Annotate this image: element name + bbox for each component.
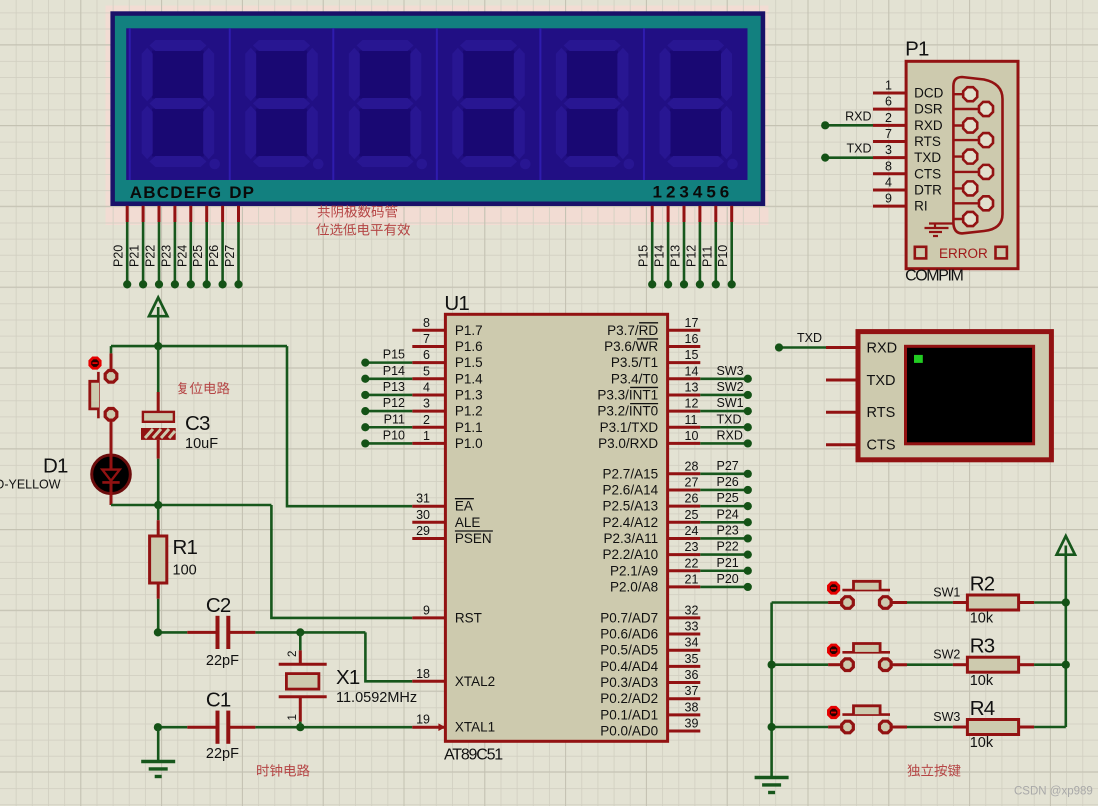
svg-text:1: 1 bbox=[423, 429, 430, 443]
svg-text:4: 4 bbox=[423, 380, 430, 394]
svg-text:P15: P15 bbox=[637, 245, 651, 267]
svg-text:P23: P23 bbox=[159, 245, 173, 267]
svg-text:P25: P25 bbox=[717, 491, 739, 505]
svg-text:XTAL2: XTAL2 bbox=[455, 674, 495, 689]
svg-text:ERROR: ERROR bbox=[939, 246, 988, 261]
svg-text:1: 1 bbox=[287, 714, 299, 720]
svg-text:P3.4/T0: P3.4/T0 bbox=[611, 371, 658, 386]
svg-text:P22: P22 bbox=[144, 245, 158, 267]
svg-text:TXD: TXD bbox=[914, 150, 941, 165]
svg-text:P14: P14 bbox=[383, 364, 405, 378]
svg-text:10k: 10k bbox=[970, 735, 994, 751]
svg-text:39: 39 bbox=[685, 717, 699, 731]
svg-text:21: 21 bbox=[685, 572, 699, 586]
svg-text:TXD: TXD bbox=[717, 412, 742, 426]
svg-text:28: 28 bbox=[685, 459, 699, 473]
svg-text:3: 3 bbox=[885, 143, 892, 157]
svg-text:U1: U1 bbox=[444, 292, 469, 315]
svg-text:13: 13 bbox=[685, 380, 699, 394]
svg-text:10k: 10k bbox=[970, 611, 994, 627]
svg-text:P1.4: P1.4 bbox=[455, 371, 483, 386]
svg-text:RXD: RXD bbox=[717, 428, 743, 442]
svg-text:RI: RI bbox=[914, 199, 928, 214]
svg-text:P22: P22 bbox=[717, 540, 739, 554]
svg-text:35: 35 bbox=[685, 652, 699, 666]
svg-text:P1.0: P1.0 bbox=[455, 436, 483, 451]
svg-text:25: 25 bbox=[685, 508, 699, 522]
svg-text:2: 2 bbox=[885, 111, 892, 125]
svg-text:P3.6/WR: P3.6/WR bbox=[604, 339, 658, 354]
svg-text:P2.4/A12: P2.4/A12 bbox=[603, 515, 659, 530]
svg-text:P2.5/A13: P2.5/A13 bbox=[603, 499, 659, 514]
svg-text:XTAL1: XTAL1 bbox=[455, 720, 495, 735]
svg-text:P23: P23 bbox=[717, 523, 739, 537]
svg-text:P0.1/AD1: P0.1/AD1 bbox=[600, 707, 658, 722]
svg-text:38: 38 bbox=[685, 700, 699, 714]
svg-text:23: 23 bbox=[685, 540, 699, 554]
svg-text:C2: C2 bbox=[206, 594, 231, 617]
svg-text:DSR: DSR bbox=[914, 102, 943, 117]
svg-text:P0.7/AD7: P0.7/AD7 bbox=[600, 610, 658, 625]
svg-text:19: 19 bbox=[416, 713, 430, 727]
svg-text:R4: R4 bbox=[970, 697, 995, 720]
svg-text:27: 27 bbox=[685, 475, 699, 489]
svg-text:P2.0/A8: P2.0/A8 bbox=[610, 579, 658, 594]
svg-text:5: 5 bbox=[423, 364, 430, 378]
svg-text:P3.3/INT1: P3.3/INT1 bbox=[597, 387, 658, 402]
svg-text:4: 4 bbox=[885, 175, 892, 189]
svg-text:SW2: SW2 bbox=[717, 380, 744, 394]
svg-text:100: 100 bbox=[173, 563, 197, 579]
svg-text:P26: P26 bbox=[717, 475, 739, 489]
svg-text:PSEN: PSEN bbox=[455, 531, 492, 546]
svg-text:P3.0/RXD: P3.0/RXD bbox=[598, 436, 658, 451]
svg-text:CSDN @xp989: CSDN @xp989 bbox=[1014, 786, 1093, 798]
svg-text:P1: P1 bbox=[905, 37, 929, 60]
svg-text:R1: R1 bbox=[173, 536, 198, 559]
svg-text:9: 9 bbox=[885, 192, 892, 206]
svg-text:RST: RST bbox=[455, 610, 482, 625]
svg-text:17: 17 bbox=[685, 316, 699, 330]
svg-text:DTR: DTR bbox=[914, 182, 942, 197]
svg-text:R2: R2 bbox=[970, 572, 995, 595]
svg-text:ABCDEFG: ABCDEFG bbox=[130, 183, 222, 202]
svg-text:AT89C51: AT89C51 bbox=[444, 746, 503, 763]
svg-text:1: 1 bbox=[885, 79, 892, 93]
svg-text:14: 14 bbox=[685, 364, 699, 378]
svg-text:LED-YELLOW: LED-YELLOW bbox=[0, 478, 61, 492]
svg-text:SW1: SW1 bbox=[933, 586, 960, 600]
svg-text:P24: P24 bbox=[717, 507, 739, 521]
svg-text:P15: P15 bbox=[383, 348, 405, 362]
svg-text:8: 8 bbox=[885, 159, 892, 173]
svg-text:123456: 123456 bbox=[653, 183, 734, 202]
svg-text:P1.3: P1.3 bbox=[455, 387, 483, 402]
svg-text:P0.6/AD6: P0.6/AD6 bbox=[600, 627, 658, 642]
svg-text:29: 29 bbox=[416, 524, 430, 538]
svg-text:22: 22 bbox=[685, 556, 699, 570]
svg-text:7: 7 bbox=[885, 127, 892, 141]
svg-text:10k: 10k bbox=[970, 673, 994, 689]
svg-text:10: 10 bbox=[685, 429, 699, 443]
svg-text:11.0592MHz: 11.0592MHz bbox=[336, 690, 417, 706]
svg-text:TXD: TXD bbox=[867, 373, 896, 389]
svg-text:P11: P11 bbox=[700, 246, 714, 267]
svg-text:P3.7/RD: P3.7/RD bbox=[607, 323, 658, 338]
svg-text:P10: P10 bbox=[716, 245, 730, 267]
svg-text:P2.3/A11: P2.3/A11 bbox=[604, 531, 659, 546]
svg-text:P10: P10 bbox=[383, 428, 405, 442]
svg-text:36: 36 bbox=[685, 668, 699, 682]
svg-text:X1: X1 bbox=[336, 666, 360, 689]
svg-text:RTS: RTS bbox=[914, 134, 941, 149]
svg-text:2: 2 bbox=[423, 413, 430, 427]
svg-text:33: 33 bbox=[685, 620, 699, 634]
svg-text:CTS: CTS bbox=[867, 438, 896, 454]
svg-text:6: 6 bbox=[423, 348, 430, 362]
svg-text:26: 26 bbox=[685, 492, 699, 506]
svg-text:P2.1/A9: P2.1/A9 bbox=[610, 563, 658, 578]
svg-text:11: 11 bbox=[685, 413, 698, 427]
svg-text:RXD: RXD bbox=[867, 340, 898, 356]
svg-text:P11: P11 bbox=[384, 412, 405, 426]
svg-text:P25: P25 bbox=[191, 245, 205, 267]
svg-text:P27: P27 bbox=[717, 459, 739, 473]
svg-text:15: 15 bbox=[685, 348, 699, 362]
svg-text:P13: P13 bbox=[383, 380, 405, 394]
svg-text:37: 37 bbox=[685, 684, 699, 698]
svg-text:30: 30 bbox=[416, 508, 430, 522]
svg-text:SW3: SW3 bbox=[933, 710, 960, 724]
svg-text:TXD: TXD bbox=[797, 331, 822, 345]
svg-text:6: 6 bbox=[885, 95, 892, 109]
svg-text:P0.0/AD0: P0.0/AD0 bbox=[600, 724, 658, 739]
svg-text:P13: P13 bbox=[669, 245, 683, 267]
svg-text:16: 16 bbox=[685, 332, 699, 346]
svg-text:22pF: 22pF bbox=[206, 746, 239, 762]
svg-text:P2.7/A15: P2.7/A15 bbox=[603, 466, 659, 481]
svg-text:9: 9 bbox=[423, 603, 430, 617]
svg-text:P1.1: P1.1 bbox=[455, 420, 483, 435]
svg-text:3: 3 bbox=[423, 397, 430, 411]
svg-text:24: 24 bbox=[685, 524, 699, 538]
svg-text:32: 32 bbox=[685, 603, 699, 617]
svg-text:TXD: TXD bbox=[847, 142, 872, 156]
svg-text:8: 8 bbox=[423, 316, 430, 330]
svg-text:P12: P12 bbox=[383, 396, 405, 410]
svg-text:P0.5/AD5: P0.5/AD5 bbox=[600, 643, 658, 658]
svg-text:SW3: SW3 bbox=[717, 364, 744, 378]
svg-text:7: 7 bbox=[423, 332, 430, 346]
svg-text:P1.2: P1.2 bbox=[455, 404, 483, 419]
svg-text:P26: P26 bbox=[207, 245, 221, 267]
svg-text:R3: R3 bbox=[970, 635, 995, 658]
svg-text:SW1: SW1 bbox=[717, 396, 744, 410]
svg-text:P3.2/INT0: P3.2/INT0 bbox=[597, 404, 658, 419]
svg-text:CTS: CTS bbox=[914, 166, 941, 181]
svg-text:12: 12 bbox=[685, 397, 699, 411]
svg-text:P20: P20 bbox=[717, 572, 739, 586]
svg-text:DP: DP bbox=[229, 183, 255, 202]
svg-text:P20: P20 bbox=[112, 245, 126, 267]
svg-text:P2.2/A10: P2.2/A10 bbox=[603, 547, 659, 562]
svg-text:SW2: SW2 bbox=[933, 648, 960, 662]
svg-text:P27: P27 bbox=[223, 245, 237, 267]
svg-text:10uF: 10uF bbox=[185, 436, 218, 452]
svg-text:22pF: 22pF bbox=[206, 653, 239, 669]
svg-text:ALE: ALE bbox=[455, 515, 481, 530]
svg-text:P0.4/AD4: P0.4/AD4 bbox=[600, 659, 658, 674]
svg-text:P1.6: P1.6 bbox=[455, 339, 483, 354]
svg-text:P21: P21 bbox=[128, 245, 142, 267]
svg-text:P12: P12 bbox=[684, 245, 698, 267]
svg-text:P1.5: P1.5 bbox=[455, 355, 483, 370]
svg-text:P21: P21 bbox=[717, 556, 739, 570]
svg-text:31: 31 bbox=[416, 492, 430, 506]
svg-text:P3.5/T1: P3.5/T1 bbox=[611, 355, 658, 370]
svg-text:34: 34 bbox=[685, 636, 699, 650]
svg-text:P0.3/AD3: P0.3/AD3 bbox=[600, 675, 658, 690]
svg-text:P14: P14 bbox=[653, 245, 667, 267]
svg-text:P3.1/TXD: P3.1/TXD bbox=[600, 420, 659, 435]
svg-text:C1: C1 bbox=[206, 688, 231, 711]
svg-text:RXD: RXD bbox=[914, 118, 943, 133]
svg-text:EA: EA bbox=[455, 499, 473, 514]
svg-text:DCD: DCD bbox=[914, 86, 943, 101]
svg-text:2: 2 bbox=[287, 651, 299, 657]
svg-text:P2.6/A14: P2.6/A14 bbox=[603, 482, 659, 497]
svg-text:18: 18 bbox=[416, 667, 430, 681]
svg-text:P1.7: P1.7 bbox=[455, 323, 483, 338]
svg-text:COMPIM: COMPIM bbox=[905, 268, 963, 285]
svg-text:RTS: RTS bbox=[867, 405, 896, 421]
svg-text:P0.2/AD2: P0.2/AD2 bbox=[600, 691, 658, 706]
svg-text:P24: P24 bbox=[175, 245, 189, 267]
svg-text:D1: D1 bbox=[43, 455, 68, 478]
svg-text:C3: C3 bbox=[185, 412, 210, 435]
svg-text:RXD: RXD bbox=[845, 109, 871, 123]
